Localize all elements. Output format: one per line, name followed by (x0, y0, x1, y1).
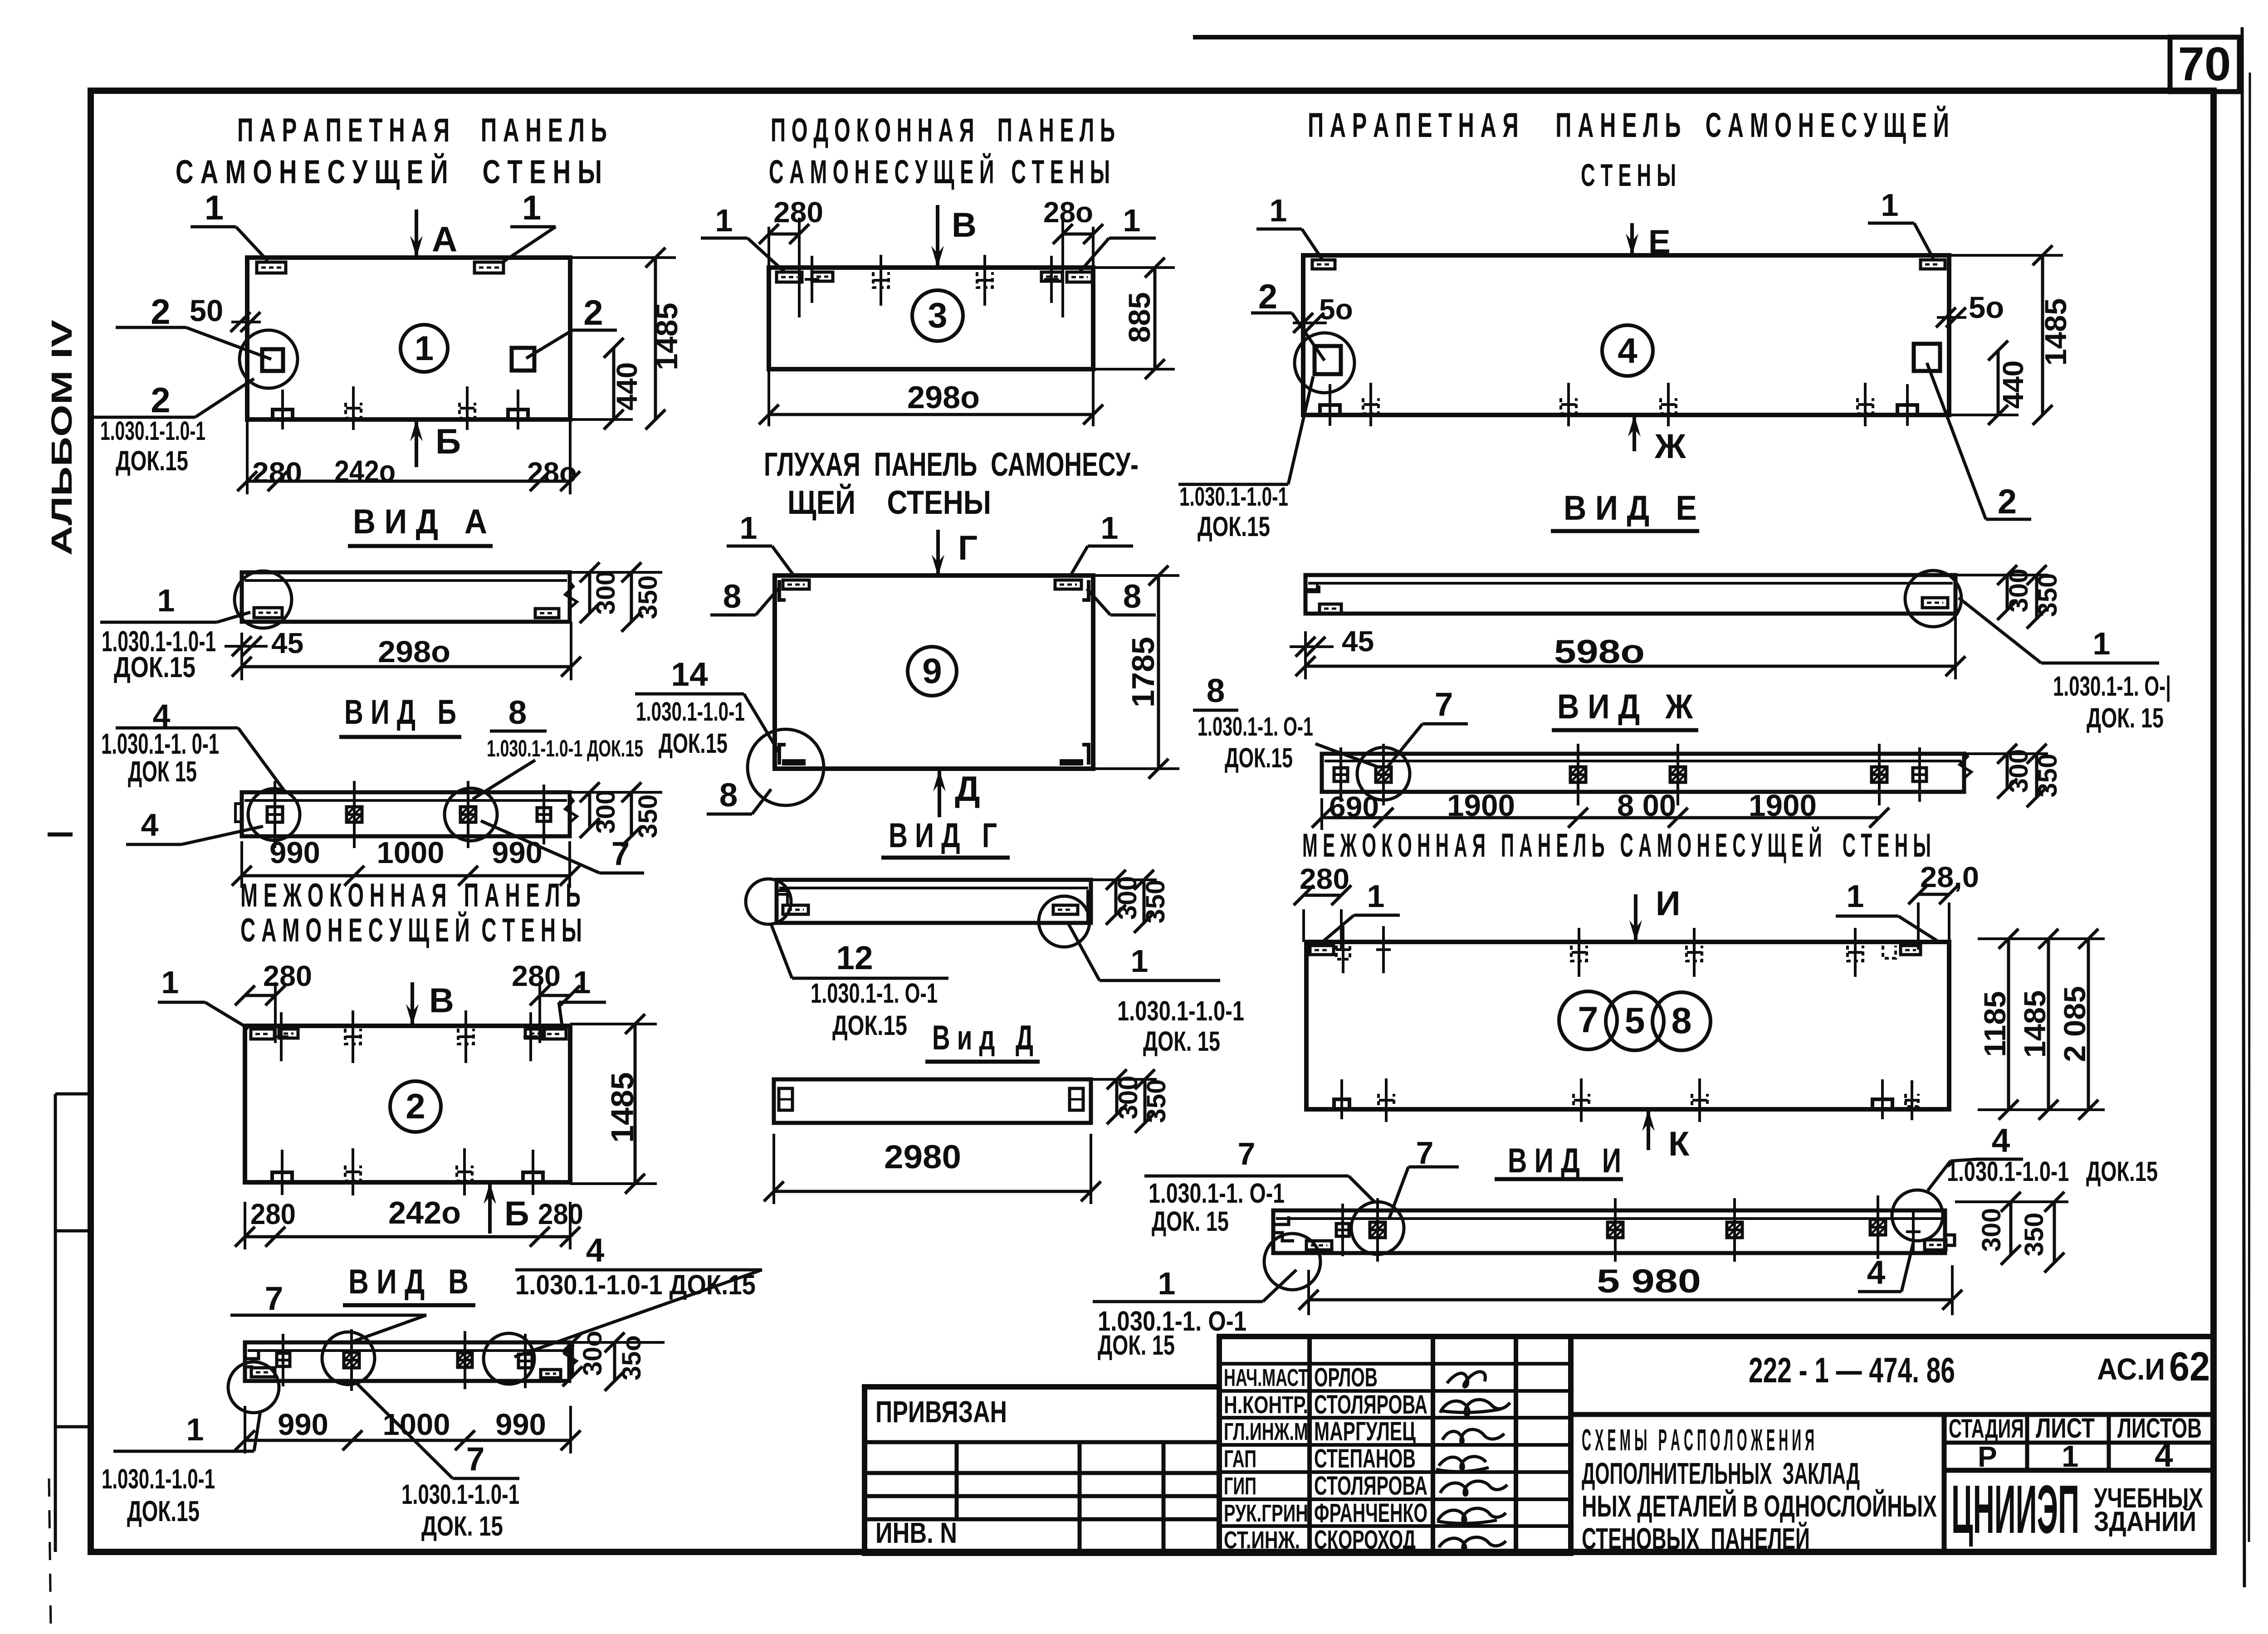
title text line 3 (1582, 1489, 1937, 1523)
vid V dims 300 350 right (562, 1331, 665, 1391)
stadiya list listov values (1978, 1437, 2173, 1474)
svg-text:Р: Р (1978, 1440, 1997, 1473)
vid A callout circle left (235, 571, 292, 628)
panel 4 right embedded square (detail 2) (1914, 344, 1940, 371)
panel 7-5-8 dims 1185 1485 2085 (1978, 929, 2105, 1120)
panel 7-5-8 dim 28,0 top-right (1908, 861, 1979, 950)
vid B callout circle detail 3 (445, 788, 497, 841)
panel 7-5-8 section arrow K (1642, 1109, 1690, 1163)
title block outer top line (1219, 1334, 2214, 1339)
vid I leader 7 first (1144, 1136, 1374, 1202)
svg-text:8: 8 (723, 578, 742, 615)
svg-text:7: 7 (466, 1441, 485, 1478)
svg-text:1: 1 (161, 965, 179, 1000)
vid V dim 990 1000 990 (235, 1406, 581, 1454)
svg-text:5: 5 (1624, 1000, 1645, 1041)
paper top edge line (1193, 35, 2241, 39)
panel 1 top-right anchor plate (474, 262, 503, 273)
vid G panel strip (777, 880, 1091, 923)
svg-text:440: 440 (611, 362, 643, 411)
panel 7-5-8 bottom details (1334, 1078, 1919, 1122)
view label VID E (1551, 489, 1699, 531)
svg-text:990: 990 (269, 836, 320, 870)
panel 3 top hook left-mid (873, 255, 889, 306)
vid B callout circle detail 1 (248, 789, 300, 840)
vid B dim 990 1000 990 (232, 836, 580, 888)
svg-text:1: 1 (715, 203, 733, 238)
panel 9 leader 1 left (727, 510, 794, 576)
stadiya list listov labels (1949, 1413, 2202, 1444)
svg-text:45: 45 (271, 627, 303, 659)
panel 7-5-8 top hook right (1848, 928, 1863, 977)
svg-text:2: 2 (151, 380, 170, 420)
svg-text:АЛЬБОМ IV: АЛЬБОМ IV (45, 320, 78, 556)
svg-text:350: 350 (2033, 573, 2063, 617)
vid Zh detail square 2 hatched (1376, 744, 1391, 805)
vid A leader 1 with doc ref (100, 583, 250, 683)
title box sheet code AS.I 62 (2097, 1344, 2210, 1390)
heading podokonnaya panel line 1 (771, 112, 1115, 149)
title box divider line (1571, 1336, 2214, 1553)
svg-text:ДОК.15: ДОК.15 (1198, 511, 1270, 542)
svg-text:С Т Е Н Ы: С Т Е Н Ы (1581, 157, 1676, 193)
vid B detail square 4 (537, 785, 551, 844)
svg-text:1.030.1-1. О-|: 1.030.1-1. О-| (2053, 671, 2171, 702)
svg-text:28о: 28о (527, 456, 577, 489)
album IV vertical label (45, 320, 78, 556)
vid V detail square 2 hatched (344, 1329, 359, 1391)
svg-text:Ж: Ж (1654, 427, 1686, 466)
vid I panel strip (1273, 1210, 1945, 1253)
panel 4 bottom hook left (1363, 383, 1378, 426)
svg-text:50: 50 (190, 294, 224, 328)
svg-text:350: 350 (1141, 880, 1170, 924)
svg-text:30о: 30о (578, 1331, 607, 1376)
panel 7-5-8 dim 280 top-left (1294, 863, 1351, 950)
panel 1 embedded square right (detail 2) (512, 348, 534, 371)
panel 4 doc ref bottom-left (1178, 376, 1313, 542)
svg-text:300: 300 (2004, 749, 2033, 793)
panel 4 top-left anchor plate (1312, 260, 1335, 269)
vid E panel strip (1305, 575, 1955, 614)
vid I dims 300 350 right (1955, 1192, 2068, 1273)
svg-text:990: 990 (495, 1408, 546, 1442)
title text line 4 (1582, 1522, 1810, 1556)
svg-text:В И Д В: В И Д В (348, 1263, 469, 1301)
svg-text:В И Д Г: В И Д Г (889, 816, 997, 855)
panel 9 leader 1 right (1070, 510, 1133, 576)
vid I left hook step (1273, 1216, 1294, 1241)
panel 2 section arrow V top (406, 981, 454, 1026)
panel 4 mark circle 4 (1602, 325, 1653, 376)
svg-text:М Е Ж О К О Н Н А Я П А Н Е: М Е Ж О К О Н Н А Я П А Н Е Л Ь С А М О … (1302, 827, 1931, 864)
svg-text:1: 1 (2093, 626, 2111, 661)
panel 3 mark circle 3 (912, 290, 963, 341)
panel 4 section arrow E (1626, 223, 1671, 260)
label 14 with doc ref (panel 9 callout) (635, 656, 779, 759)
panel 1 bottom hook detail left-mid (346, 386, 361, 430)
svg-text:7: 7 (1238, 1136, 1256, 1171)
vid D dims 300 350 right (1091, 1069, 1171, 1133)
vid V left hook step (245, 1351, 259, 1367)
heading parapet panel (right) line 2 (1581, 157, 1676, 193)
vid Zh detail square 4 hatched (1670, 744, 1686, 805)
panel 2 top hook right-mid (458, 1010, 474, 1063)
panel 7-5-8 top-right corner plate (1883, 946, 1921, 958)
panel 4 dim 1485 right (1949, 245, 2073, 425)
svg-text:ДОК. 15: ДОК. 15 (1098, 1330, 1175, 1361)
svg-text:1.030.1-1.0-1: 1.030.1-1.0-1 (102, 1463, 215, 1494)
panel 9 corner angle bottom-right (1060, 745, 1089, 766)
privyazan table grid (865, 1387, 1219, 1553)
vid B leader 7 (481, 821, 644, 873)
page number box (2170, 37, 2239, 92)
svg-text:1000: 1000 (382, 1408, 450, 1442)
svg-text:И: И (1656, 884, 1681, 923)
vid B detail square 2 hatched (347, 781, 362, 848)
svg-text:1000: 1000 (376, 836, 444, 870)
svg-text:ПРИВЯЗАН: ПРИВЯЗАН (875, 1395, 1007, 1429)
svg-text:1: 1 (1158, 1266, 1176, 1301)
svg-text:5о: 5о (1319, 293, 1353, 326)
svg-text:280: 280 (263, 960, 312, 992)
svg-text:ЛИСТ: ЛИСТ (2036, 1413, 2095, 1444)
svg-text:В и д Д: В и д Д (932, 1019, 1033, 1057)
vid E left step detail (1305, 585, 1341, 613)
svg-text:МАРГУЛЕЦ: МАРГУЛЕЦ (1314, 1417, 1416, 1446)
panel 3 leader 1 right (1080, 203, 1156, 272)
panel 2 leader 1 left (158, 965, 249, 1029)
heading parapet panel (left) line 1 (237, 112, 607, 149)
svg-text:1485: 1485 (605, 1072, 640, 1143)
svg-text:В И Д Е: В И Д Е (1564, 489, 1697, 527)
panel 4 label 2 and 50 left (1251, 278, 1353, 361)
svg-text:280: 280 (252, 456, 302, 489)
panel 3 dim 280 left (759, 196, 823, 317)
svg-text:280: 280 (250, 1198, 296, 1230)
title box object number 222-1-474.86 (1749, 1350, 1955, 1390)
panel 4 section arrow Zh (1628, 415, 1686, 466)
svg-text:8: 8 (1123, 578, 1142, 615)
svg-text:2: 2 (151, 292, 170, 332)
svg-text:П А Р А П Е Т Н А Я П А Н: П А Р А П Е Т Н А Я П А Н Е Л Ь С А М О … (1308, 106, 1949, 145)
svg-text:В: В (952, 206, 977, 244)
vid V right end plate (541, 1370, 561, 1378)
svg-text:ДОК. 15: ДОК. 15 (1143, 1026, 1220, 1057)
vid G leader 1 with doc ref (1069, 924, 1244, 1057)
svg-text:1: 1 (1123, 203, 1141, 238)
svg-text:62: 62 (2169, 1344, 2210, 1390)
svg-text:280: 280 (538, 1198, 583, 1230)
vid D panel strip (774, 1079, 1091, 1123)
svg-text:300: 300 (1113, 876, 1142, 920)
vid I detail plate left (1306, 1241, 1332, 1250)
panel 9 section arrow G (932, 529, 978, 576)
svg-text:1.030.1-1. О-1: 1.030.1-1. О-1 (811, 978, 938, 1009)
svg-text:280: 280 (512, 960, 561, 992)
panel 7-5-8 outline (1306, 942, 1949, 1109)
svg-text:ДОК.15: ДОК.15 (127, 1495, 200, 1527)
panel 2 dim 280 top-left (235, 960, 312, 1043)
svg-text:4: 4 (1618, 331, 1637, 371)
panel 7-5-8 mark circles 7 5 8 (1559, 991, 1711, 1050)
panel 4 label 50 right (1936, 291, 2004, 327)
svg-text:СТ.ИНЖ.: СТ.ИНЖ. (1224, 1527, 1300, 1554)
panel 3 outline (769, 268, 1093, 369)
panel 4 leader 2 bottom-right (1927, 363, 2031, 521)
svg-text:350: 350 (1142, 1079, 1171, 1123)
svg-text:С А М О Н Е С У Щ Е Й С Т Е Н: С А М О Н Е С У Щ Е Й С Т Е Н Ы (240, 912, 582, 949)
svg-text:2980: 2980 (884, 1139, 961, 1176)
svg-text:1.030.1-1.0-1: 1.030.1-1.0-1 (636, 697, 745, 727)
panel 1 top-left anchor plate (257, 262, 286, 273)
panel 3 dim 885 right (1093, 258, 1175, 379)
svg-text:5о: 5о (1969, 291, 2004, 325)
svg-text:350: 350 (633, 795, 663, 839)
svg-text:1.030.1-1.0-1: 1.030.1-1.0-1 (1179, 482, 1288, 512)
vid E dim 5980 (1295, 614, 1965, 679)
paper right edge line (2242, 27, 2250, 1587)
panel 4 leader 1 top-left (1256, 193, 1322, 259)
vid A panel strip (242, 572, 577, 622)
vid V leader 1 left with doc ref (102, 1411, 260, 1527)
svg-text:222 - 1 — 474. 86: 222 - 1 — 474. 86 (1749, 1350, 1955, 1390)
vid I doc ref upper (1149, 1178, 1285, 1237)
panel 1 section arrow B (410, 419, 461, 467)
vid Zh dims 300 350 right (1964, 744, 2063, 807)
svg-text:ДОК.15: ДОК.15 (1225, 742, 1293, 773)
svg-text:1: 1 (1101, 510, 1119, 546)
svg-text:1: 1 (1131, 943, 1149, 979)
stadiya list listov table (1944, 1415, 2214, 1553)
svg-text:1.030.1-1.0-1: 1.030.1-1.0-1 (1117, 995, 1244, 1026)
panel 4 bottom hook mid-right (1661, 383, 1676, 426)
vid B detail square 3 hatched (460, 781, 476, 848)
vid A dim 45 (225, 627, 303, 659)
svg-text:ДОК. 15: ДОК. 15 (1152, 1206, 1229, 1237)
panel 9 mark circle 9 (908, 647, 957, 696)
vid I detail square small left (1335, 1204, 1350, 1256)
panel 1 leader 2 lower-left with doc ref (90, 379, 254, 420)
panel 2 bottom anchor plate right (523, 1150, 543, 1195)
panel 2 dim 1485 right (570, 1014, 657, 1194)
svg-text:70: 70 (2178, 38, 2231, 91)
panel 1 bottom anchor plate right (508, 390, 528, 429)
svg-text:1485: 1485 (2039, 298, 2073, 366)
panel 9 leader 8 right (1087, 578, 1156, 615)
panel 1 mark circle 1 (401, 325, 448, 372)
vid I detail square right hatched (1870, 1195, 1886, 1259)
panel 7-5-8 leader 1 top-right (1836, 878, 1937, 941)
svg-text:2: 2 (406, 1086, 425, 1126)
svg-text:5 980: 5 980 (1597, 1263, 1701, 1300)
panel 4 bottom hook right (1857, 383, 1873, 426)
inv N label (875, 1517, 957, 1549)
panel 2 top hook left-mid (345, 1010, 361, 1063)
vid I callout circle right end (1892, 1190, 1943, 1241)
panel 7-5-8 leader 4 bottom-right with doc ref (1928, 1122, 2158, 1190)
svg-text:1.030.1-1.0-1 ДОК.15: 1.030.1-1.0-1 ДОК.15 (487, 736, 643, 762)
view label VID A (348, 502, 493, 546)
svg-text:Н.КОНТР.: Н.КОНТР. (1224, 1391, 1308, 1419)
panel 4 bottom anchor plate left (1320, 384, 1340, 426)
svg-text:П О Д О К О Н Н А Я П А Н Е: П О Д О К О Н Н А Я П А Н Е Л Ь (771, 112, 1115, 149)
svg-text:1900: 1900 (1749, 789, 1817, 823)
svg-text:350: 350 (2019, 1213, 2049, 1257)
panel 4 outline (1303, 255, 1949, 415)
svg-text:ДОК. 15: ДОК. 15 (2087, 702, 2164, 733)
svg-text:300: 300 (591, 790, 621, 834)
svg-text:Б: Б (504, 1195, 529, 1233)
svg-text:300: 300 (591, 571, 621, 615)
title text line 2 (1582, 1457, 1860, 1491)
svg-text:4: 4 (2155, 1437, 2173, 1474)
svg-text:298о: 298о (378, 635, 450, 669)
svg-text:598о: 598о (1554, 634, 1645, 670)
panel 2 top-left corner plates (251, 1012, 298, 1061)
svg-text:1: 1 (205, 189, 224, 227)
svg-text:2: 2 (583, 293, 603, 332)
svg-text:300: 300 (1977, 1208, 2006, 1252)
panel 9 corner angle bottom-left (779, 745, 806, 766)
svg-text:2: 2 (1998, 483, 2017, 521)
vid V left end plate (251, 1368, 275, 1377)
svg-text:В И Д Ж: В И Д Ж (1557, 688, 1693, 726)
panel 3 bottom dim 2980 (759, 369, 1103, 426)
svg-text:С А М О Н Е С У Щ Е Й С Т: С А М О Н Е С У Щ Е Й С Т Е Н Ы (176, 153, 602, 190)
svg-text:12: 12 (836, 940, 873, 976)
panel 4 bottom anchor plate right (1897, 384, 1917, 426)
panel 1 section arrow A (410, 210, 457, 259)
svg-text:ДОК. 15: ДОК. 15 (421, 1511, 503, 1541)
panel 3 top-left corner plates (777, 256, 833, 303)
svg-text:1: 1 (740, 510, 758, 546)
panel 9 leader 8 bottom-left (707, 777, 771, 814)
panel 3 dim 280 right (1043, 196, 1103, 317)
panel 4 top-right anchor plate (1921, 260, 1945, 269)
vid Zh detail square 6 (1912, 747, 1927, 802)
svg-text:ЦНИИЭП: ЦНИИЭП (1951, 1471, 2079, 1547)
vid Zh leader 7 (1387, 686, 1468, 767)
panel 2 mark circle 2 (390, 1081, 441, 1132)
vid A right end plate (535, 609, 559, 618)
svg-text:ГЛ.ИНЖ.М: ГЛ.ИНЖ.М (1224, 1418, 1308, 1445)
svg-text:ДОПОЛНИТЕЛЬНЫХ ЗАКЛАД: ДОПОЛНИТЕЛЬНЫХ ЗАКЛАД (1582, 1457, 1860, 1491)
panel 2 top-right corner plates (523, 1012, 566, 1061)
vid V leader 7 top (230, 1280, 426, 1341)
vid G leader 12 with doc ref (771, 924, 948, 1041)
vid Zh detail square 1 (1334, 747, 1348, 802)
svg-text:9: 9 (922, 651, 942, 691)
svg-text:С Х Е М Ы Р А С П О Л О Ж Е: С Х Е М Ы Р А С П О Л О Ж Е Н И Я (1582, 1423, 1814, 1457)
vid D dim 2980 (764, 1134, 1101, 1204)
svg-text:НАЧ.МАСТ: НАЧ.МАСТ (1224, 1364, 1308, 1391)
svg-text:ФРАНЧЕНКО: ФРАНЧЕНКО (1314, 1498, 1427, 1528)
svg-text:242о: 242о (334, 454, 396, 488)
vid E leader 1 with doc ref (1959, 598, 2171, 733)
panel 4 bottom tick mid-left (1561, 383, 1576, 426)
vid B leader 4 lower (126, 807, 263, 844)
svg-text:1.030.1-1.0-1: 1.030.1-1.0-1 (401, 1479, 519, 1510)
panel 9 corner angle top-right (1055, 580, 1089, 600)
svg-text:298о: 298о (907, 380, 980, 415)
vid G callout circle right (1039, 896, 1090, 947)
panel 9 callout circle bottom-left (748, 729, 824, 805)
svg-text:В И Д Б: В И Д Б (344, 693, 456, 732)
svg-text:8: 8 (1207, 673, 1225, 709)
svg-text:ДОК.15: ДОК.15 (116, 445, 188, 476)
left margin fold strip (48, 834, 91, 1552)
panel 2 bottom hook left-mid (345, 1148, 361, 1195)
panel 3 section arrow V (931, 205, 977, 268)
svg-text:ГИП: ГИП (1224, 1473, 1256, 1500)
svg-text:ДОК.15: ДОК.15 (114, 651, 196, 683)
vid A dims 300 350 right (570, 562, 663, 632)
svg-text:1485: 1485 (2018, 990, 2052, 1058)
vid I leader 4 right (1858, 1243, 1913, 1292)
heading glukhaya panel line 1 (764, 446, 1139, 483)
svg-text:4: 4 (1867, 1254, 1886, 1291)
panel 1 embedded square left (detail 2) (262, 349, 283, 371)
svg-text:3: 3 (928, 295, 947, 335)
svg-text:1785: 1785 (1125, 637, 1161, 707)
title text line 1 (1582, 1423, 1814, 1457)
svg-text:1.030.1-1. О-1: 1.030.1-1. О-1 (1149, 1178, 1285, 1209)
panel 7-5-8 leader 1 top-left (1321, 878, 1400, 943)
svg-text:Г: Г (958, 529, 978, 567)
svg-text:С А М О Н Е С У Щ Е Й С Т Е: С А М О Н Е С У Щ Е Й С Т Е Н Ы (769, 153, 1110, 190)
TSNIIEP logo (1951, 1471, 2079, 1547)
panel 9 dim 1785 right (1093, 566, 1179, 779)
panel 4 left embedded square (detail 2) (1315, 346, 1341, 374)
svg-text:1: 1 (1881, 187, 1899, 223)
vid E right end plate (1922, 598, 1948, 608)
svg-text:А: А (432, 219, 457, 259)
svg-text:Д: Д (955, 769, 980, 809)
heading parapet panel (right) line 1 (1308, 106, 1949, 145)
panel 7-5-8 top hook mid-right (1686, 928, 1702, 977)
svg-text:1: 1 (1847, 878, 1864, 914)
svg-text:РУК.ГРИН: РУК.ГРИН (1224, 1500, 1308, 1527)
svg-text:СТОЛЯРОВА: СТОЛЯРОВА (1314, 1390, 1427, 1419)
svg-text:7: 7 (1578, 1000, 1598, 1040)
svg-text:ДОК.15: ДОК.15 (832, 1010, 907, 1041)
panel 4 callout circle left square (1295, 333, 1354, 393)
panel 1 bottom anchor plate left (273, 390, 293, 429)
svg-text:242о: 242о (388, 1195, 461, 1230)
panel 2 bottom hook right-mid (457, 1148, 472, 1195)
panel 3 leader 1 left (701, 203, 785, 272)
panel 3 top-right corner plates (1041, 256, 1092, 303)
svg-text:7: 7 (265, 1280, 283, 1317)
page number 70 (2178, 38, 2231, 91)
vid D left end plate (779, 1088, 792, 1110)
svg-text:1.030.1-1.0-1: 1.030.1-1.0-1 (100, 416, 205, 446)
view label VID B (339, 693, 461, 737)
svg-text:СТОЛЯРОВА: СТОЛЯРОВА (1314, 1471, 1427, 1501)
svg-text:300: 300 (1114, 1076, 1143, 1120)
svg-text:4: 4 (141, 807, 159, 843)
panel 7-5-8 top hook mid-left (1571, 928, 1587, 977)
svg-text:2: 2 (1258, 278, 1277, 316)
vid V leader 4 with doc ref (514, 1232, 762, 1357)
panel 9 outline (775, 576, 1093, 769)
vid B detail square 1 (267, 781, 283, 848)
svg-text:690: 690 (1329, 790, 1379, 823)
panel 2 dim 280 top-right (512, 960, 580, 1043)
panel 2 section arrow B bottom (484, 1182, 529, 1234)
view label VID I (1495, 1141, 1623, 1180)
